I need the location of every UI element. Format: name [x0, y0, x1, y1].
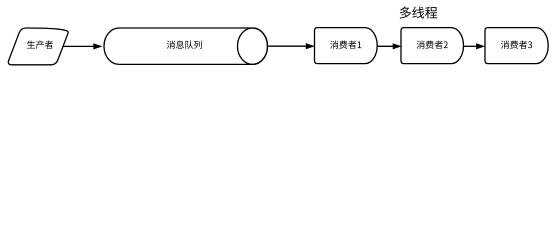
annotation 多线程: [400, 7, 438, 19]
producer box 生产者 (parallelogram): [8, 28, 68, 65]
label 消息队列: [167, 40, 202, 48]
wire arrow from 生产者 to 消息队列: [64, 45, 94, 47]
consumer box 消费者3 (delay shape): [485, 28, 548, 64]
message queue cylinder 消息队列: [104, 28, 268, 64]
label 生产者: [27, 41, 53, 49]
label 消费者2: [417, 41, 448, 49]
label 消费者3: [501, 41, 532, 49]
wire arrow from 消费者2 to 消费者3: [464, 45, 477, 47]
label 消费者1: [330, 41, 361, 49]
consumer box 消费者1 (delay shape): [315, 28, 378, 64]
wire arrow from 消息队列 to 消费者1: [268, 45, 306, 47]
wire arrow from 消费者1 to 消费者2: [377, 45, 393, 47]
cylinder face ellipse: [238, 28, 268, 64]
consumer box 消费者2 (delay shape): [401, 28, 463, 64]
